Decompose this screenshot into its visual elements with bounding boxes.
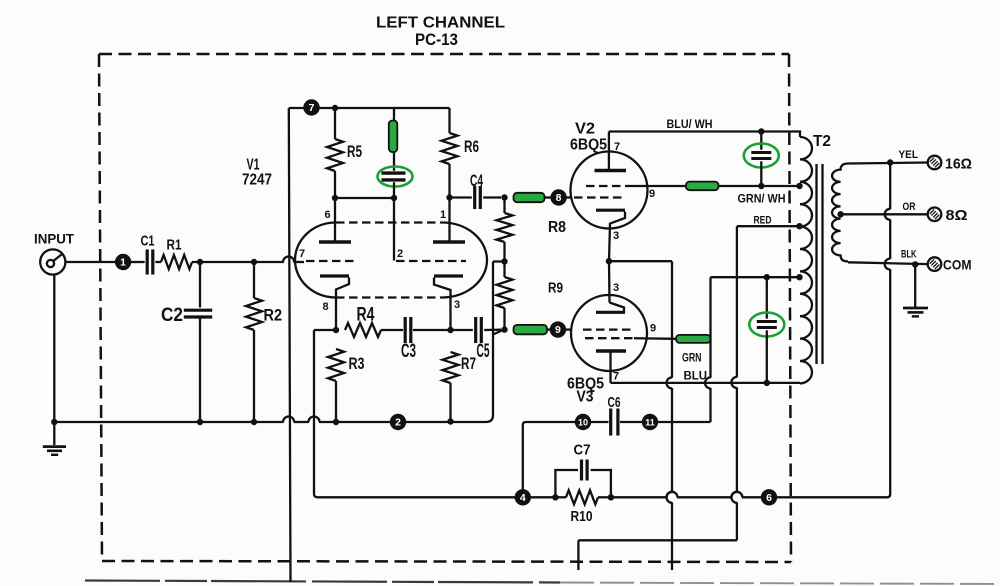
dashed border top xyxy=(99,53,789,56)
svg-text:R8: R8 xyxy=(548,219,566,236)
junction BLK gnd xyxy=(912,261,918,267)
wire pin8 junction left xyxy=(314,329,336,331)
svg-text:R10: R10 xyxy=(571,508,593,525)
node 6 xyxy=(761,489,777,505)
junction cap1 bottom xyxy=(758,183,764,189)
wire R1 to grid V1 xyxy=(192,261,284,263)
marked capacitor plates xyxy=(382,171,406,174)
svg-text:C7: C7 xyxy=(574,442,591,459)
junction fb YEL xyxy=(887,159,893,165)
svg-text:3: 3 xyxy=(454,299,460,311)
svg-text:9: 9 xyxy=(649,188,655,200)
junction R2 gnd xyxy=(251,419,257,425)
wire node4 up xyxy=(522,425,524,491)
wire tap to node11 xyxy=(658,421,711,423)
svg-text:T2: T2 xyxy=(813,133,831,150)
wire bus to marked part xyxy=(393,108,395,122)
dashed border right xyxy=(789,54,791,562)
svg-text:C3: C3 xyxy=(401,341,416,362)
wire cap2 down xyxy=(766,330,768,383)
plate wire V1 xyxy=(335,197,394,199)
T2 core lines xyxy=(815,164,817,364)
V2 screen wire out xyxy=(631,185,686,187)
B+ top bus xyxy=(289,107,450,109)
page edge line left xyxy=(85,581,560,583)
hop RED over BLU wire xyxy=(731,377,737,388)
RED wire vertical xyxy=(736,226,738,377)
RED wire vertical 2 xyxy=(736,502,738,540)
V2 plate bar xyxy=(595,169,627,172)
cathode bus down 3 xyxy=(671,502,673,570)
green ellipse highlight 1 xyxy=(744,144,779,168)
wire node8 to V2 grid xyxy=(566,196,572,198)
B+ vertical wire xyxy=(289,108,291,582)
wire green to node9 xyxy=(547,328,551,330)
svg-text:R3: R3 xyxy=(349,354,365,373)
wire to right ground xyxy=(914,264,916,307)
V2 grid dashes xyxy=(574,196,625,198)
V3 plate lead xyxy=(609,351,611,383)
tube V1 envelope top dashes xyxy=(336,221,442,223)
junction cap2 BLU xyxy=(764,380,770,386)
C7 branch right down xyxy=(591,470,611,497)
capacitor C1 xyxy=(146,250,149,275)
junction R3 gnd xyxy=(333,419,339,425)
svg-text:9: 9 xyxy=(555,324,561,336)
junction R10 left xyxy=(552,494,558,500)
junction C2 xyxy=(197,259,203,265)
hop RED over fb wire xyxy=(731,492,737,503)
hop fb over cathode line xyxy=(667,492,678,498)
junction C2 gnd xyxy=(197,419,203,425)
RED feed exits board xyxy=(577,540,579,570)
svg-text:C2: C2 xyxy=(161,305,183,326)
OR wire xyxy=(841,213,928,215)
capacitor C5 xyxy=(474,317,477,343)
ground bus wire 3 xyxy=(319,421,486,423)
tube V2 envelope xyxy=(571,152,648,229)
V3 screen dashes xyxy=(585,337,634,339)
svg-text:1: 1 xyxy=(440,209,446,221)
svg-text:GRN/ WH: GRN/ WH xyxy=(738,192,786,206)
corner node4 to node10 xyxy=(523,422,526,425)
green marker V2 screen xyxy=(686,182,719,191)
junction R7 gnd xyxy=(447,418,453,424)
wire C4 to junction xyxy=(483,196,501,198)
node 9 xyxy=(550,321,566,337)
resistor R4 xyxy=(345,323,381,337)
svg-text:3: 3 xyxy=(613,230,619,242)
screen tap vertical xyxy=(709,277,711,378)
resistor R8 xyxy=(497,213,513,242)
svg-text:COM: COM xyxy=(943,257,972,273)
svg-text:8Ω: 8Ω xyxy=(946,207,968,224)
wire C2 to ground bus xyxy=(199,317,201,422)
wire cap1 down xyxy=(760,161,762,186)
svg-text:YEL: YEL xyxy=(899,149,919,161)
svg-text:R5: R5 xyxy=(347,142,362,161)
wire node4 to R10 xyxy=(530,496,553,498)
wire corner to node10 xyxy=(526,421,576,423)
RED wire horizontal xyxy=(737,225,800,227)
tube V1 envelope right half xyxy=(442,223,487,298)
V3 cathode lead xyxy=(608,261,611,302)
svg-text:C4: C4 xyxy=(470,171,483,190)
junction R6 C4 xyxy=(446,194,452,200)
wire to R10 xyxy=(555,496,566,498)
wire junction to R8 xyxy=(503,198,505,214)
wire pin8-line to node 4 xyxy=(318,496,515,498)
tube V3 envelope xyxy=(571,295,647,371)
svg-text:V3: V3 xyxy=(577,389,594,406)
terminal COM xyxy=(928,257,942,271)
capacitor C3 xyxy=(404,317,407,343)
svg-text:4: 4 xyxy=(520,492,526,504)
bus hop over B+ line xyxy=(283,417,294,423)
BLK wire xyxy=(848,262,928,264)
junction primary GRN/WH xyxy=(796,183,802,189)
screen tap wire xyxy=(711,276,801,278)
V2 plate wire BLU/WH xyxy=(609,132,800,138)
hop fb over RED line xyxy=(731,492,742,498)
V1 plate bar left xyxy=(319,240,351,243)
resistor R7 xyxy=(443,352,459,383)
wire C3 to junction xyxy=(413,329,448,331)
feedback vertical 2 xyxy=(889,219,891,259)
svg-text:7: 7 xyxy=(299,248,305,260)
wire bus corner to R6 xyxy=(448,108,450,133)
junction R10 right xyxy=(608,494,614,500)
input jack ground wire xyxy=(53,275,55,423)
junction R5 plate xyxy=(332,195,338,201)
wire R10 right xyxy=(598,496,609,498)
node 1 xyxy=(115,254,131,270)
V1 pin 6 lead xyxy=(334,198,336,241)
resistor R5 xyxy=(327,139,343,171)
resistor R6 xyxy=(442,133,458,164)
node 2 xyxy=(390,414,406,430)
tap wire left xyxy=(493,260,505,262)
cathode bus down xyxy=(671,261,673,378)
wire R5 to plate junction xyxy=(334,171,336,198)
V3 cathode bar xyxy=(596,311,625,314)
svg-text:OR: OR xyxy=(903,201,916,213)
V1 cathode hook left xyxy=(336,278,349,331)
node 4 xyxy=(515,489,531,505)
junction tap xyxy=(501,258,507,264)
wire R3 to bus xyxy=(335,381,337,422)
svg-text:2: 2 xyxy=(395,417,401,429)
V1 cathode bar right xyxy=(434,274,463,277)
green marked component (vertical) xyxy=(389,121,398,153)
T2 secondary winding xyxy=(832,164,848,262)
junction secondary tap xyxy=(837,211,843,217)
wire to R2 xyxy=(253,262,255,298)
wire bus to R5 xyxy=(334,108,336,139)
RED wire bottom horizontal xyxy=(578,539,737,541)
wire R6 junction to C4 xyxy=(450,196,472,198)
node 7 xyxy=(303,99,319,115)
T2 primary winding xyxy=(800,137,812,383)
BLU plate wire xyxy=(611,382,801,384)
hop tap over BLU wire xyxy=(705,377,711,388)
wire R8 to tap xyxy=(503,242,505,262)
cathode wire right xyxy=(609,260,672,262)
svg-text:R2: R2 xyxy=(264,306,283,325)
bus corner up to tap xyxy=(486,415,493,422)
resistor R1 xyxy=(161,255,192,269)
svg-text:C6: C6 xyxy=(608,394,621,411)
svg-text:8: 8 xyxy=(322,301,328,313)
svg-text:1: 1 xyxy=(120,257,126,269)
svg-text:PC-13: PC-13 xyxy=(415,30,458,49)
V2 cathode hook xyxy=(609,212,625,262)
junction R2 xyxy=(251,259,257,265)
resistor R9 divider xyxy=(497,277,513,308)
svg-text:BLU/ WH: BLU/ WH xyxy=(667,117,713,131)
wire node9 to V3 grid xyxy=(566,328,573,330)
green ellipse highlight xyxy=(378,167,413,187)
svg-text:6: 6 xyxy=(324,209,330,221)
svg-text:BLU: BLU xyxy=(684,369,708,383)
feedback vertical 3 xyxy=(889,163,891,210)
V1 grid dashes right xyxy=(396,260,466,262)
junction primary tap xyxy=(796,274,802,280)
green marker V3 screen xyxy=(676,335,711,343)
junction node9 xyxy=(501,326,507,332)
fb wire node6 right xyxy=(777,496,887,498)
svg-text:LEFT CHANNEL: LEFT CHANNEL xyxy=(376,15,505,32)
resistor R3 xyxy=(328,349,344,381)
V1 pin 1 lead xyxy=(448,198,450,241)
resistor R2 xyxy=(246,298,262,330)
capacitor C4 xyxy=(473,186,476,209)
wire node10 to C6 xyxy=(591,421,609,423)
V3 plate bar xyxy=(596,349,626,352)
hop fb over BLK xyxy=(885,259,890,270)
green marker node9 wire xyxy=(514,325,548,334)
bus hop over node4 line xyxy=(309,417,320,423)
capacitor C7 xyxy=(580,460,583,481)
wire R4 to C3 xyxy=(381,329,403,331)
junction primary RED xyxy=(796,223,802,229)
green marker node8 wire xyxy=(514,193,545,202)
svg-text:INPUT: INPUT xyxy=(34,231,74,247)
dashed border bottom xyxy=(102,561,791,562)
marked capacitor plates 1 xyxy=(751,151,771,154)
feedback vertical xyxy=(889,269,891,494)
svg-text:BLK: BLK xyxy=(901,249,917,261)
svg-text:R1: R1 xyxy=(167,237,182,254)
svg-text:R9: R9 xyxy=(548,280,563,297)
hop over fb wire xyxy=(667,492,673,503)
terminal 16 ohm xyxy=(928,156,942,170)
wire to C2 xyxy=(199,262,201,308)
svg-text:GRN: GRN xyxy=(682,351,702,365)
V2 pin7 plate lead xyxy=(608,132,610,170)
RED wire vertical 1b xyxy=(736,387,738,492)
svg-text:7: 7 xyxy=(614,141,620,153)
wire marked part to cap xyxy=(393,151,395,171)
resistor R10 xyxy=(566,490,598,504)
node 11 xyxy=(642,414,658,430)
svg-text:R7: R7 xyxy=(461,354,476,373)
junction pin8 xyxy=(333,327,339,333)
svg-text:C5: C5 xyxy=(477,341,490,362)
capacitor C6 xyxy=(609,409,612,436)
wire hop to tube V1 xyxy=(293,261,304,263)
tube V1 envelope left half xyxy=(295,223,336,298)
GRN/WH screen wire xyxy=(719,185,801,187)
wire C1 to R1 xyxy=(155,261,161,263)
wire R7 to bus xyxy=(449,383,451,422)
hop over B+ line xyxy=(283,257,294,263)
fb corner up xyxy=(887,494,890,497)
svg-text:8: 8 xyxy=(556,192,562,204)
hop over BLU wire xyxy=(667,377,673,388)
junction R8 top xyxy=(501,194,507,200)
page edge line right xyxy=(560,583,1000,585)
wire C5 to node9 junction xyxy=(484,329,501,332)
hop fb over OR xyxy=(885,209,890,220)
svg-text:6: 6 xyxy=(766,492,772,504)
screen tap vertical 2 xyxy=(709,388,711,422)
ground symbol left xyxy=(43,445,66,448)
wire down to node4 line xyxy=(313,330,315,494)
corner to node4 wire xyxy=(314,494,318,497)
wire R9 to node9 junction xyxy=(503,262,505,278)
V2 cathode bar xyxy=(596,209,625,212)
junction gnd bus xyxy=(51,419,57,425)
svg-text:6BQ5: 6BQ5 xyxy=(570,137,607,154)
svg-text:R6: R6 xyxy=(464,137,479,156)
C7 branch up left xyxy=(555,470,578,497)
junction cathodes xyxy=(606,258,612,264)
input jack J1 xyxy=(40,249,65,274)
wire junction to C5 xyxy=(451,329,473,331)
ground bus wire 2 xyxy=(294,421,309,423)
wire node1 to C1 xyxy=(131,261,145,263)
junction cap1 top xyxy=(758,128,764,134)
fb wire mid xyxy=(677,496,732,498)
V1 grid dashes left xyxy=(306,260,357,262)
V1 cathode hook right xyxy=(434,278,451,331)
marked capacitor plates 2 xyxy=(757,320,777,323)
tap wire down xyxy=(492,262,494,416)
node 8 xyxy=(550,189,566,205)
svg-text:RED: RED xyxy=(754,215,772,227)
terminal 8 ohm xyxy=(928,208,942,222)
svg-text:10: 10 xyxy=(578,418,588,428)
svg-text:11: 11 xyxy=(645,418,655,428)
V2 screen dashes xyxy=(586,185,631,187)
V3 cathode hook xyxy=(610,303,625,313)
wire to marked cap1 xyxy=(760,132,762,150)
tap connector diagonal xyxy=(493,330,503,335)
wire jack to node 1 xyxy=(65,261,115,263)
V1 cathode bar left xyxy=(320,274,349,277)
YEL wire xyxy=(848,163,928,164)
V1 plate bar right xyxy=(433,240,465,243)
svg-text:V2: V2 xyxy=(575,121,595,138)
wire cap to junction xyxy=(393,182,395,198)
tube V1 envelope bottom dashes xyxy=(336,296,442,298)
dashed border left xyxy=(99,54,102,561)
ground symbol right xyxy=(903,307,928,310)
wire green to node8 xyxy=(545,196,552,198)
svg-text:R4: R4 xyxy=(357,305,375,326)
svg-text:7: 7 xyxy=(613,371,619,383)
wire C6 to node11 xyxy=(620,421,643,423)
junction screen tap xyxy=(764,274,770,280)
junction grid2 line xyxy=(391,195,397,201)
svg-text:C1: C1 xyxy=(141,233,155,250)
green ellipse highlight 2 xyxy=(749,313,784,337)
svg-text:7247: 7247 xyxy=(242,172,272,189)
wire R2 to ground bus xyxy=(253,330,255,422)
fb wire to node6 xyxy=(742,496,762,498)
node 10 xyxy=(575,414,591,430)
V3 screen wire out xyxy=(634,337,676,340)
wire junction to grid 2 xyxy=(393,198,395,261)
junction R5 bus xyxy=(332,105,338,111)
junction R7 pin3 xyxy=(447,327,453,333)
svg-text:2: 2 xyxy=(397,248,403,260)
wire tap to marked cap2 xyxy=(766,277,768,319)
svg-text:3: 3 xyxy=(613,282,619,294)
cathode bus down 2 xyxy=(671,388,673,492)
svg-text:16Ω: 16Ω xyxy=(945,156,972,173)
svg-text:7: 7 xyxy=(309,102,315,114)
wire R6 to junction xyxy=(448,164,450,198)
V3 grid dashes xyxy=(583,328,633,330)
capacitor C2 xyxy=(184,309,212,312)
ground bus wire xyxy=(54,421,283,423)
svg-text:9: 9 xyxy=(650,323,656,335)
fb wire to hop1 xyxy=(611,496,667,498)
